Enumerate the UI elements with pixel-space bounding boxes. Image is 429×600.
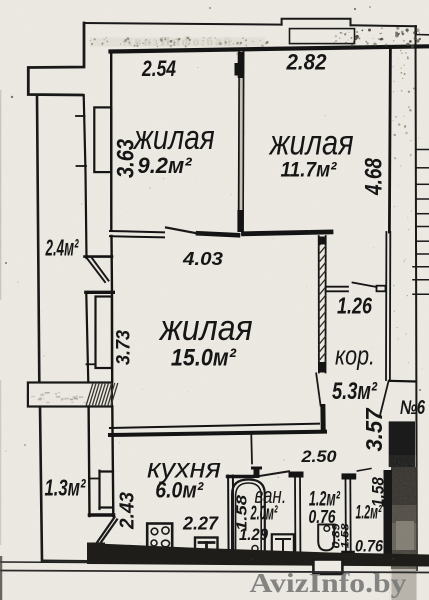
svg-text:15.0м²: 15.0м²	[171, 345, 237, 372]
stairwell long line right	[416, 26, 417, 570]
svg-text:3.73: 3.73	[114, 330, 135, 365]
kitchen window column	[87, 407, 90, 517]
svg-text:2.54: 2.54	[141, 56, 176, 81]
svg-text:жилая: жилая	[158, 307, 253, 348]
top exterior wall (thick)	[111, 46, 429, 51]
left wall outer line (balcony side) x~84	[84, 95, 87, 258]
toilet/right-room wall bar	[342, 473, 357, 479]
svg-text:2.0м²: 2.0м²	[250, 503, 278, 525]
svg-text:№6: №6	[400, 397, 426, 419]
column bottom bar above balcony door (room15)	[85, 255, 113, 258]
divider band dense hatch	[86, 383, 118, 406]
corridor column (room15 right wall) hatched	[318, 236, 320, 373]
svg-text:2.50: 2.50	[300, 447, 337, 466]
door corridor to room15 leaf	[316, 373, 320, 405]
svg-text:3.57: 3.57	[361, 407, 387, 451]
left scan edge artifacts	[0, 90, 2, 600]
toilet	[324, 526, 330, 532]
svg-text:кор.: кор.	[335, 341, 375, 371]
svg-text:1.26: 1.26	[337, 293, 372, 319]
right wall of room 11.7 / corridor x~390	[389, 48, 390, 232]
bath door leaf	[250, 435, 253, 464]
door leaf room9.2	[166, 228, 203, 235]
outer building outline top	[84, 23, 282, 25]
wall bar between bath and toilet	[289, 472, 304, 478]
top-right corner tick	[416, 26, 429, 35]
niche wall 1.26 with door (below room 11.7)	[326, 286, 348, 288]
bottom exterior wall band	[87, 543, 429, 567]
window room9.2	[94, 107, 111, 172]
inner bump rect	[290, 29, 355, 44]
bottom wall room 9.2 with door	[110, 231, 164, 232]
thin bottom outline lines	[0, 561, 88, 564]
smudged wall column right side	[391, 467, 417, 569]
svg-text:1.58: 1.58	[340, 522, 352, 548]
svg-text:4.68: 4.68	[361, 157, 388, 195]
corner piece right of room15 bottom	[320, 407, 325, 431]
entry door leaf	[380, 381, 388, 414]
balcony 1.3 left edge	[40, 407, 42, 562]
svg-text:жилая: жилая	[268, 124, 354, 163]
stove	[147, 524, 172, 552]
washbasin	[272, 534, 294, 557]
svg-text:1.3м²: 1.3м²	[45, 475, 87, 501]
bottom wall room 11.7 (thick)	[244, 232, 332, 234]
left wall inner line (room side) x~112	[110, 52, 113, 230]
svg-text:9.2м²: 9.2м²	[138, 153, 193, 178]
svg-text:4.03: 4.03	[182, 249, 223, 269]
svg-text:2.43: 2.43	[117, 492, 139, 530]
svg-text:5.3м²: 5.3м²	[332, 378, 378, 405]
bathroom left wall (kitchen right) double	[227, 476, 230, 558]
bathtub	[232, 480, 265, 555]
svg-text:3.63: 3.63	[113, 138, 140, 178]
svg-text:AvizInfo.by: AvizInfo.by	[250, 568, 408, 598]
stair treads	[413, 150, 429, 295]
balcony 2.4 left edge	[37, 96, 39, 383]
kitchen balcony door diagonals	[97, 517, 114, 542]
svg-text:11.7м²: 11.7м²	[281, 159, 338, 182]
black bar right of small rooms	[384, 470, 393, 557]
bar below balcony door opening	[86, 291, 113, 294]
svg-text:жилая: жилая	[132, 119, 215, 157]
svg-text:2.4м²: 2.4м²	[45, 235, 79, 261]
dark right column: black box below entry	[389, 421, 415, 467]
entry passage bottom	[389, 380, 416, 383]
toilet door leaf	[260, 471, 290, 476]
bottom wall room15 (double)	[110, 424, 319, 428]
svg-text:0.76: 0.76	[355, 537, 383, 556]
svg-text:2.82: 2.82	[286, 50, 328, 75]
kitchen bottom-left corner	[87, 543, 105, 565]
white gap (door) in bottom band	[313, 560, 342, 575]
kitchen sink	[195, 538, 218, 557]
svg-text:2.27: 2.27	[182, 514, 219, 534]
divider band between balconies	[28, 383, 112, 407]
bath top wall + jamb	[228, 475, 254, 478]
balcony door diagonals room15	[88, 259, 106, 282]
balcony-side line lower (room15 window outer)	[86, 294, 88, 382]
wall between 9.2 and 11.7	[238, 52, 241, 231]
top bump (loggia above)	[282, 19, 351, 26]
window room15	[96, 297, 112, 369]
svg-text:6.0м²: 6.0м²	[155, 478, 204, 503]
svg-text:1.29: 1.29	[239, 526, 269, 544]
right room door leaf	[357, 469, 371, 471]
top-left step of outline	[28, 23, 84, 95]
